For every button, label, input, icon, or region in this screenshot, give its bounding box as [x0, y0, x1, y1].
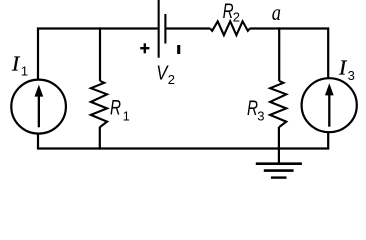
- wire top-left: battery left plate to top-left corner, down to I1 top: [38, 29, 158, 80]
- label R3: [247, 97, 264, 124]
- svg-text:I: I: [11, 51, 20, 75]
- current source I3: [302, 78, 357, 132]
- battery V2 short plate: [164, 14, 166, 44]
- svg-text:2: 2: [233, 10, 240, 25]
- svg-text:1: 1: [123, 109, 130, 124]
- battery polarity - (vertical tick): [177, 45, 180, 54]
- svg-text:2: 2: [168, 72, 175, 87]
- node a wire: from top wire down to R3 top: [278, 27, 280, 81]
- resistor R1: [91, 81, 107, 127]
- wire: R1 branch from top wire down to R1 top: [99, 27, 101, 81]
- wire: R2 right end to top-right corner, down to I3 top: [250, 29, 328, 79]
- battery V2 long plate: [158, 0, 160, 58]
- svg-text:3: 3: [348, 68, 355, 83]
- svg-text:R: R: [110, 96, 121, 119]
- svg-text:1: 1: [21, 63, 28, 78]
- svg-text:a: a: [272, 0, 281, 26]
- wire: R1 bottom stub to bottom rail: [99, 127, 101, 150]
- current source I1: [11, 80, 66, 134]
- label V2: [156, 62, 175, 87]
- wire: R3 bottom stub through bottom rail into ground stem: [278, 127, 280, 164]
- label I3: [338, 55, 355, 83]
- svg-text:3: 3: [257, 109, 264, 124]
- label R1: [110, 96, 130, 123]
- resistor R3: [270, 81, 286, 127]
- label I1: [11, 51, 28, 78]
- svg-text:I: I: [338, 55, 347, 79]
- wire: I1 bottom to bottom-left corner: [37, 133, 39, 148]
- resistor R2: [210, 21, 250, 35]
- wire: bottom rail, right corner up to I3 bottom: [37, 132, 328, 149]
- battery polarity +: [140, 43, 149, 53]
- ground: [256, 164, 302, 178]
- label R2: [223, 0, 240, 25]
- wire: battery right plate to R2 left end: [166, 27, 210, 29]
